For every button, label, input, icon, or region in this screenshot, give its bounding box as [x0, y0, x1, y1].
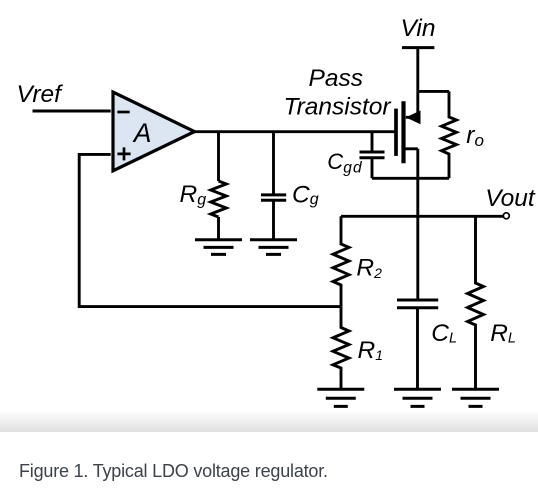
resistor RL with stubs [468, 216, 484, 389]
svg-text:A: A [132, 118, 152, 148]
capacitor Cgd plates [360, 152, 385, 158]
wire Cgd bottom stub [371, 158, 374, 179]
svg-text:Vref: Vref [17, 81, 64, 108]
caption [19, 461, 328, 482]
wire op-amp output to gate [194, 130, 395, 133]
Vout terminal circle [503, 213, 509, 219]
resistor R1 with stubs [333, 307, 349, 390]
svg-text:Cg: Cg [292, 181, 319, 208]
transistor gate bar [394, 109, 398, 156]
ground CL [394, 389, 441, 406]
svg-text:Cgd: Cgd [327, 149, 363, 176]
svg-text:R2: R2 [356, 255, 382, 282]
svg-text:CL: CL [431, 320, 457, 347]
ground Rg [195, 240, 242, 255]
wire Vout rail [341, 215, 504, 218]
svg-text:Transistor: Transistor [284, 93, 392, 120]
wire Cg branch upper [272, 132, 275, 195]
wire Cgd stub from gate [371, 132, 374, 152]
resistor ro [442, 91, 457, 178]
ground RL [452, 389, 499, 406]
Vin terminal bar [402, 46, 434, 49]
svg-text:Vout: Vout [485, 185, 536, 212]
wire drain down through Vout node to CL [416, 149, 419, 300]
resistor Rg [211, 181, 227, 217]
capacitor Cg plates [261, 195, 286, 200]
capacitor CL plates [397, 300, 438, 308]
resistor R2 with stubs [333, 216, 349, 306]
svg-text:Vin: Vin [401, 15, 436, 42]
svg-text:Pass: Pass [309, 65, 363, 92]
figure shadow band [0, 410, 538, 432]
op-amp A [113, 92, 195, 171]
svg-text:R1: R1 [358, 337, 384, 364]
wire CL bottom to ground [416, 308, 419, 390]
transistor channel bar [401, 101, 405, 163]
transistor source arrow [406, 111, 421, 125]
wire Rg branch upper [217, 132, 220, 181]
wire bottom junction Cgd-drain-ro [372, 177, 449, 180]
svg-text:Rg: Rg [180, 181, 207, 209]
svg-text:ro: ro [466, 122, 484, 150]
wire source lead [406, 91, 418, 117]
op-amp minus sign [117, 111, 129, 114]
op-amp plus sign [117, 147, 130, 160]
wire Cg to ground [272, 200, 275, 240]
wire Rg to ground [217, 217, 220, 240]
wire drain lead [406, 147, 418, 150]
wire top junction Vin-ro [418, 90, 449, 93]
wire Vref input [33, 110, 111, 113]
ground R1 [317, 389, 364, 406]
wire noninverting input + feedback net [79, 154, 341, 306]
svg-text:RL: RL [490, 320, 516, 347]
ground Cg [250, 240, 297, 255]
wire Vin down [416, 48, 419, 92]
